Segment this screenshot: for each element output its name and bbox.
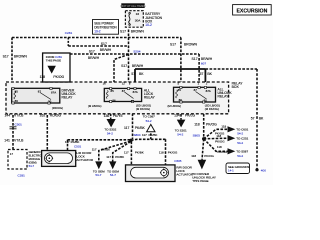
svg-text:16: 16 <box>103 81 106 85</box>
svg-text:144: 144 <box>5 114 11 118</box>
svg-text:C281: C281 <box>65 31 73 35</box>
svg-text:BR/WH: BR/WH <box>132 64 144 68</box>
svg-text:S204: S204 <box>133 49 141 53</box>
svg-text:118: 118 <box>159 150 164 154</box>
svg-text:117: 117 <box>106 155 111 159</box>
wire diagonal to GEM arrow 1 <box>99 141 131 161</box>
arrow down TO DRIVER UNLOCK RELAY <box>198 160 207 170</box>
junction S805 <box>202 137 205 140</box>
svg-text:PK/BK: PK/BK <box>71 140 80 144</box>
svg-text:607: 607 <box>201 62 206 66</box>
svg-text:(M LB/OG): (M LB/OG) <box>168 104 182 108</box>
wire brown feed top horizontal <box>12 37 181 39</box>
see grounds box <box>226 163 250 174</box>
label battery junction box <box>145 12 162 27</box>
svg-text:85: 85 <box>111 89 115 93</box>
node C501 connector ticks <box>10 127 17 129</box>
wire 117 PK/BK relay to junction <box>132 102 134 140</box>
svg-text:54-2: 54-2 <box>237 154 243 158</box>
svg-text:BK: BK <box>207 72 212 76</box>
svg-text:TO C251: TO C251 <box>236 137 248 141</box>
svg-text:(GEM): (GEM) <box>29 160 37 164</box>
wire 57 BK right drop to ground <box>256 69 258 170</box>
svg-text:PK/OG: PK/OG <box>204 154 214 158</box>
wire 117 PK/BK horizontal to actuator <box>68 140 131 151</box>
wire 144 VT/LB to GEM <box>12 103 14 150</box>
svg-text:(RD/OG): (RD/OG) <box>52 106 63 110</box>
svg-text:54-7: 54-7 <box>95 173 101 177</box>
wire fan diag to driver unlock relay ref <box>202 139 204 160</box>
motor M2 rear door lock actuator <box>126 165 176 182</box>
svg-text:87A: 87A <box>51 91 56 95</box>
svg-text:PK/OG: PK/OG <box>53 75 64 79</box>
svg-text:(M DK/OG): (M DK/OG) <box>136 107 150 111</box>
wire br/wh short horizontal <box>68 45 128 47</box>
svg-text:10-2: 10-2 <box>145 23 152 27</box>
svg-text:16: 16 <box>136 12 140 16</box>
svg-text:136: 136 <box>104 114 110 118</box>
arrow right TO S587 <box>228 148 236 154</box>
svg-text:54-2: 54-2 <box>237 131 243 135</box>
svg-text:RD/OG: RD/OG <box>50 114 61 118</box>
wire 57 BK stub all unlock relay <box>204 69 206 87</box>
svg-text:C605: C605 <box>174 159 182 163</box>
svg-text:RELAY: RELAY <box>218 95 230 99</box>
svg-text:HOT AT ALL TIMES: HOT AT ALL TIMES <box>120 4 145 8</box>
GEM module box <box>8 150 27 170</box>
svg-text:30: 30 <box>48 99 52 103</box>
svg-text:PK/OG: PK/OG <box>215 140 225 144</box>
svg-text:54-2: 54-2 <box>177 133 183 137</box>
wire fan diag down to S587 arrow <box>204 139 228 152</box>
svg-text:PK/BK: PK/BK <box>101 148 110 152</box>
svg-text:57: 57 <box>251 116 255 120</box>
svg-text:PK/BK: PK/BK <box>135 150 144 154</box>
wire 118 PK/OG junction to actuator <box>131 139 166 165</box>
relay K2 all lock relay <box>104 88 141 103</box>
arrow down TO GEM 1 <box>95 161 102 169</box>
svg-text:PK/BK: PK/BK <box>149 133 158 137</box>
svg-text:54-7: 54-7 <box>29 164 35 168</box>
svg-text:S804: S804 <box>134 133 141 137</box>
svg-text:57: 57 <box>200 72 204 76</box>
wire fuse output vertical <box>128 30 130 89</box>
wire labels top <box>3 29 264 120</box>
svg-text:85: 85 <box>178 88 182 92</box>
svg-text:30A: 30A <box>135 18 141 22</box>
label L/R door lock actuator <box>76 151 93 162</box>
svg-text:BOX: BOX <box>232 85 240 89</box>
wire brown right drop <box>180 38 182 88</box>
svg-text:PK/BK: PK/BK <box>135 126 146 130</box>
parenthetical labels in relay box <box>52 103 220 111</box>
wire brown left drop to driver unlock relay <box>11 38 13 89</box>
relay box dashed <box>6 82 229 114</box>
label GEM <box>29 150 46 168</box>
EXCURSION title box <box>233 5 272 15</box>
wire 136 PK/YE stub <box>110 102 112 120</box>
svg-text:54-2: 54-2 <box>107 132 113 136</box>
arrow right TO C601 <box>228 126 236 132</box>
svg-text:87: 87 <box>194 88 198 92</box>
svg-text:30: 30 <box>204 99 208 103</box>
pin numbers above relays <box>103 81 208 85</box>
svg-text:BK: BK <box>259 116 264 120</box>
svg-text:BR/WH: BR/WH <box>201 57 213 61</box>
svg-text:(M DK/OG): (M DK/OG) <box>205 107 219 111</box>
svg-text:C501: C501 <box>15 122 23 126</box>
svg-text:PK/BK: PK/BK <box>115 155 124 159</box>
wire stub up-arrow TO C567 <box>150 132 152 140</box>
svg-text:S17: S17 <box>3 55 9 59</box>
svg-text:TO C567: TO C567 <box>143 115 155 119</box>
svg-text:ACTUATOR: ACTUATOR <box>76 158 93 162</box>
arrow down TO S302 <box>107 119 116 127</box>
svg-text:117: 117 <box>142 133 147 137</box>
svg-text:118: 118 <box>217 145 222 149</box>
svg-text:BROWN: BROWN <box>131 29 145 33</box>
svg-text:134: 134 <box>174 113 180 117</box>
svg-text:118: 118 <box>191 154 196 158</box>
svg-text:118: 118 <box>221 125 226 129</box>
svg-text:PK/OG: PK/OG <box>215 132 225 136</box>
svg-text:PK/OG: PK/OG <box>168 150 178 154</box>
svg-text:RELAY: RELAY <box>62 96 74 100</box>
svg-text:RELAY: RELAY <box>144 96 156 100</box>
svg-text:87: 87 <box>38 89 42 93</box>
motor M1 driver door lock actuator <box>42 151 76 167</box>
svg-text:162: 162 <box>40 114 46 118</box>
wire 57 BK ground horizontal solid <box>135 68 205 70</box>
wire br/wh drop to all unlock relay <box>198 54 200 87</box>
svg-text:117: 117 <box>92 148 97 152</box>
wire br/wh main horizontal <box>70 53 199 55</box>
svg-text:BR/WH: BR/WH <box>88 56 100 60</box>
hot at all times banner <box>121 3 144 8</box>
wire 118 PK/OG from FROM arrow <box>51 74 53 89</box>
svg-text:87: 87 <box>122 89 126 93</box>
svg-text:86: 86 <box>179 98 183 102</box>
wire junction down to actuator left pin <box>130 142 132 165</box>
junction ground G301 <box>255 168 258 171</box>
svg-text:141: 141 <box>4 138 10 142</box>
svg-text:54-2: 54-2 <box>237 141 243 145</box>
arrow up TO C567 <box>147 124 155 131</box>
wire 118 PK/OG relay to fan junction <box>203 102 205 138</box>
junction S804 <box>129 139 132 142</box>
svg-text:THIS PAGE: THIS PAGE <box>46 59 61 63</box>
node C281 connector stub <box>67 38 69 47</box>
arrow from C281 <box>47 66 56 74</box>
wire fan horizontal to C251 arrow <box>204 137 228 140</box>
svg-text:10-2: 10-2 <box>94 30 101 34</box>
svg-text:86: 86 <box>112 98 116 102</box>
svg-text:THIS PAGE: THIS PAGE <box>192 179 208 183</box>
svg-text:30: 30 <box>131 99 135 103</box>
wire 57 BK stub all lock relay <box>134 69 136 88</box>
label driver unlock relay <box>62 88 77 99</box>
svg-text:S17: S17 <box>192 57 198 61</box>
svg-text:14-1: 14-1 <box>228 169 234 173</box>
svg-text:GENERIC: GENERIC <box>29 150 41 154</box>
svg-text:C501: C501 <box>74 144 82 148</box>
svg-text:PK/OG: PK/OG <box>217 150 227 154</box>
svg-text:118: 118 <box>40 75 46 79</box>
svg-text:57: 57 <box>131 72 135 76</box>
label relay box <box>232 81 244 89</box>
arrow right TO C251 <box>228 135 236 141</box>
svg-text:86: 86 <box>15 99 19 103</box>
svg-text:VT/LB: VT/LB <box>14 114 24 118</box>
svg-text:400: 400 <box>261 168 266 172</box>
label all unlock relay <box>218 87 233 98</box>
svg-text:ACTUATOR: ACTUATOR <box>176 173 193 177</box>
wire diagonal to GEM arrow 2 <box>113 142 131 162</box>
wire br/wh branch to all lock relay <box>114 54 129 88</box>
svg-text:S805: S805 <box>193 134 201 138</box>
svg-text:87A: 87A <box>206 89 211 93</box>
wire 162 RD/OG to door lock actuator <box>46 103 48 151</box>
svg-text:PK/LG: PK/LG <box>185 113 195 117</box>
svg-text:85: 85 <box>15 89 19 93</box>
svg-text:S17: S17 <box>89 50 95 54</box>
see power distribution box <box>93 20 119 35</box>
wire 134 PK/LG stub <box>180 102 182 120</box>
arrow down TO S201 <box>177 120 186 128</box>
wire labels bottom <box>4 113 217 142</box>
svg-text:118: 118 <box>194 122 200 126</box>
relay K3 all unlock relay <box>174 86 216 103</box>
svg-text:S17: S17 <box>170 42 176 46</box>
svg-text:BK: BK <box>139 72 144 76</box>
svg-text:17: 17 <box>10 152 14 156</box>
svg-text:54-7: 54-7 <box>110 173 116 177</box>
svg-text:117: 117 <box>124 150 129 154</box>
svg-text:PK/OG: PK/OG <box>206 122 217 126</box>
svg-text:S17: S17 <box>120 29 126 33</box>
label R/R door lock actuator <box>176 165 193 176</box>
FROM C281 box <box>43 53 70 82</box>
svg-text:TO S587: TO S587 <box>236 150 248 154</box>
labels right fan <box>191 125 248 184</box>
labels lower left actuator wiring <box>65 140 182 177</box>
svg-text:117: 117 <box>65 140 70 144</box>
svg-text:VT/LB: VT/LB <box>14 138 24 142</box>
svg-text:S17: S17 <box>121 64 127 68</box>
svg-text:BR/WH: BR/WH <box>100 48 112 52</box>
svg-text:87A: 87A <box>133 90 138 94</box>
svg-text:EXCURSION: EXCURSION <box>236 8 267 14</box>
wire fan diag up to C601 arrow <box>204 129 228 139</box>
label all lock relay <box>144 88 156 99</box>
svg-text:PK/YE: PK/YE <box>113 114 124 118</box>
svg-text:BROWN: BROWN <box>14 55 28 59</box>
svg-text:12: 12 <box>122 81 125 85</box>
svg-text:MODULE: MODULE <box>29 157 41 161</box>
svg-text:S17: S17 <box>101 42 107 46</box>
arrow down TO GEM 2 <box>109 161 116 169</box>
svg-text:C281: C281 <box>18 174 26 178</box>
svg-text:BROWN: BROWN <box>184 42 198 46</box>
relay K1 driver unlock relay <box>12 87 60 104</box>
svg-text:54-2: 54-2 <box>146 119 152 123</box>
svg-text:117: 117 <box>124 126 130 130</box>
fuse F2.1 battery junction box <box>125 11 143 28</box>
svg-text:(M LB/OG): (M LB/OG) <box>88 104 102 108</box>
wire 57 BK ground horizontal dashed <box>205 68 257 70</box>
